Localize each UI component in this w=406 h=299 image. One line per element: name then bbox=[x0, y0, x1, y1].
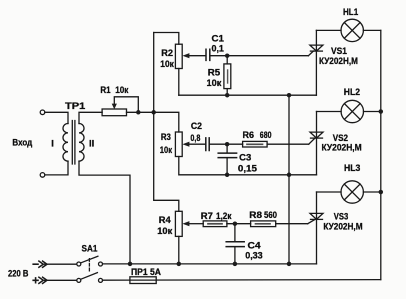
svg-text:220 В: 220 В bbox=[8, 268, 29, 279]
potentiometer R2 body bbox=[175, 44, 182, 68]
wire bbox=[45, 161, 68, 175]
switch SA1 contact bbox=[99, 262, 103, 266]
wire: secondary bottom down to common line bbox=[79, 161, 130, 264]
svg-text:560: 560 bbox=[264, 209, 277, 220]
thyristor VS3 cathode bar bbox=[311, 218, 323, 220]
node: input terminal bottom bbox=[40, 173, 45, 178]
node junction R4/common bbox=[177, 262, 182, 267]
wire: R2 top bbox=[154, 33, 179, 45]
wire: R2 bottom down bbox=[178, 69, 180, 96]
svg-text:Вход: Вход bbox=[12, 137, 32, 148]
resistor R6 body bbox=[243, 141, 268, 147]
thyristor VS1 vertical lead bbox=[315, 30, 317, 95]
wire: C3 bottom stem bbox=[226, 158, 228, 175]
transformer T1 secondary winding II bbox=[79, 124, 84, 162]
svg-text:HL1: HL1 bbox=[343, 6, 358, 17]
wire: VS3 anode to lamp HL3 bbox=[317, 191, 342, 193]
node junction R5 bottom bbox=[225, 93, 230, 98]
transformer T1 primary winding I bbox=[63, 124, 68, 162]
svg-text:ТР1: ТР1 bbox=[65, 100, 85, 111]
svg-text:R1: R1 bbox=[100, 84, 110, 95]
wire bbox=[45, 112, 68, 123]
wire: bus to R3 top bbox=[154, 112, 179, 132]
wire: bottom supply rail bbox=[103, 279, 381, 282]
node junction C3 bottom bbox=[225, 173, 230, 178]
switch SA1 contact bbox=[99, 278, 103, 282]
node junction bus/common bbox=[287, 262, 292, 267]
svg-text:R6: R6 bbox=[243, 129, 255, 140]
svg-text:10к: 10к bbox=[160, 58, 174, 69]
R4 wiper arrowhead bbox=[182, 221, 189, 226]
fuse FU1 body bbox=[130, 277, 156, 284]
thyristor VS2 gate diagonal bbox=[309, 138, 315, 144]
thyristor VS2 triangle bbox=[310, 132, 323, 138]
resistor R7 value stripe mark bbox=[208, 223, 222, 225]
wire: C1 to VS1 gate bbox=[210, 55, 308, 57]
thyristor VS1 triangle bbox=[310, 45, 323, 51]
R2 wiper arrowhead bbox=[182, 53, 189, 58]
thyristor VS3 gate diagonal bbox=[308, 219, 315, 223]
wire: R5 bottom stem bbox=[226, 89, 228, 96]
svg-text:C3: C3 bbox=[239, 152, 251, 163]
resistor R5 body bbox=[224, 64, 231, 89]
svg-text:R5: R5 bbox=[208, 66, 220, 77]
svg-text:КУ202Н,М: КУ202Н,М bbox=[319, 55, 358, 66]
220V minus polarity mark bbox=[33, 263, 38, 265]
lamp HL2 bbox=[341, 100, 363, 122]
wire: main audio bus vertical bbox=[154, 33, 179, 212]
svg-text:R2: R2 bbox=[161, 47, 173, 58]
lamp HL3 bbox=[341, 181, 363, 203]
R1 wiper arm bbox=[114, 97, 138, 113]
capacitor C4 plates bbox=[226, 242, 244, 247]
wire: HL1 to right bus bbox=[363, 29, 380, 31]
capacitor C3 plates bbox=[218, 153, 236, 158]
transformer T1 core bbox=[72, 121, 75, 165]
node junction C4/common bbox=[233, 262, 238, 267]
svg-text:10к: 10к bbox=[207, 77, 222, 88]
switch SA1 link dashed bbox=[88, 259, 90, 273]
svg-text:I: I bbox=[51, 138, 54, 149]
wire: R4 bottom bbox=[178, 236, 180, 264]
wire: secondary top to R1 bbox=[79, 112, 102, 123]
svg-text:0,15: 0,15 bbox=[238, 162, 257, 173]
svg-text:КУ202Н,М: КУ202Н,М bbox=[323, 220, 362, 231]
svg-text:0,1: 0,1 bbox=[212, 43, 224, 54]
capacitor C1 plates bbox=[206, 49, 210, 60]
wire: R4 wiper to R7 bbox=[189, 223, 203, 225]
svg-text:C2: C2 bbox=[191, 120, 202, 131]
220V plus polarity mark bbox=[33, 278, 38, 283]
svg-text:0,8: 0,8 bbox=[190, 132, 200, 143]
wire: R7 to R8 bbox=[227, 223, 251, 225]
thyristor VS2 vertical lead bbox=[316, 112, 318, 175]
wire: R3 bottom / channel 2 return line bbox=[179, 157, 317, 175]
svg-text:10к: 10к bbox=[115, 84, 128, 95]
lamp HL1 bbox=[341, 19, 363, 41]
resistor R6 value stripe mark bbox=[247, 143, 263, 145]
wire: R8 to VS3 gate bbox=[276, 223, 308, 225]
svg-text:HL3: HL3 bbox=[344, 162, 360, 173]
fuse FU1 inner line bbox=[130, 279, 156, 281]
svg-text:R8: R8 bbox=[249, 209, 262, 220]
wire: HL2 to right bus bbox=[364, 111, 381, 113]
wire: C2 to R6 bbox=[210, 143, 243, 145]
svg-text:1,2к: 1,2к bbox=[216, 210, 232, 221]
switch SA1 blade top bbox=[81, 256, 98, 263]
wire: C4 top stem bbox=[234, 224, 236, 242]
wire: VS2 anode to lamp HL2 bbox=[317, 111, 342, 113]
thyristor VS2 cathode bar bbox=[311, 137, 323, 139]
svg-text:SA1: SA1 bbox=[82, 243, 98, 254]
wire: 220V minus lead bbox=[45, 263, 77, 265]
resistor R1 body bbox=[102, 109, 126, 116]
svg-text:R3: R3 bbox=[161, 131, 171, 142]
wire: R5 top stem bbox=[226, 56, 228, 64]
svg-text:HL2: HL2 bbox=[344, 86, 360, 97]
node junction C1/R5 bbox=[225, 53, 230, 58]
svg-text:0,33: 0,33 bbox=[245, 250, 263, 261]
svg-text:R7: R7 bbox=[201, 210, 213, 221]
wire: channel 1 return line bbox=[179, 94, 317, 96]
node junction R7/R8/C4 bbox=[233, 221, 238, 226]
wire: C4 bottom stem bbox=[234, 247, 236, 264]
potentiometer R3 body bbox=[175, 132, 182, 157]
switch SA1 blade bottom bbox=[81, 273, 98, 280]
resistor R5 interior mark bbox=[227, 70, 229, 83]
svg-text:10к: 10к bbox=[160, 144, 172, 155]
switch SA1 contact bbox=[77, 278, 81, 282]
thyristor VS1 cathode bar bbox=[310, 50, 322, 52]
thyristor VS3 triangle bbox=[310, 213, 323, 219]
R3 wiper arrowhead bbox=[182, 142, 189, 147]
node junction HL3 bus bbox=[379, 190, 384, 195]
node junction return bus top bbox=[287, 93, 292, 98]
R1 wiper arrowhead bbox=[112, 104, 117, 110]
svg-text:R4: R4 bbox=[159, 214, 172, 225]
capacitor C2 plates bbox=[206, 138, 209, 151]
thyristor VS1 gate bbox=[308, 51, 313, 56]
node junction C2/R6/C3 bbox=[225, 142, 230, 147]
node junction R1 wiper bbox=[136, 110, 141, 115]
resistor R7 body bbox=[203, 221, 227, 227]
node junction audio bus bbox=[151, 110, 156, 115]
resistor R8 body bbox=[251, 221, 276, 227]
wire: common line bottom bbox=[103, 263, 317, 265]
svg-text:КУ202Н,М: КУ202Н,М bbox=[322, 142, 362, 153]
node junction transformer/common bbox=[128, 262, 133, 267]
node junction HL2 bus bbox=[379, 109, 384, 114]
wire: 220V plus lead bbox=[45, 279, 77, 281]
svg-text:II: II bbox=[89, 138, 94, 149]
node: input terminal top bbox=[40, 110, 45, 115]
wire: right supply bus bbox=[380, 30, 382, 279]
switch SA1 contact bbox=[77, 262, 81, 266]
thyristor VS3 vertical lead bbox=[316, 192, 318, 264]
node junction ch2 return bus bbox=[287, 173, 292, 178]
wire: R2 wiper to C1 bbox=[189, 55, 205, 57]
svg-text:ПР1 5А: ПР1 5А bbox=[131, 266, 161, 277]
wire: R1 right to bus bbox=[127, 111, 154, 113]
wire: common return bus vertical bbox=[288, 95, 290, 264]
wire: VS1 anode to lamp HL1 bbox=[316, 29, 341, 31]
potentiometer R4 body bbox=[175, 211, 182, 236]
wire: HL3 to right bus bbox=[363, 191, 380, 193]
svg-text:680: 680 bbox=[260, 129, 272, 140]
wire: R3 wiper to C2 bbox=[189, 143, 205, 145]
svg-text:10к: 10к bbox=[157, 225, 172, 236]
wire: C3 top stem bbox=[226, 144, 228, 153]
resistor R8 value stripe mark bbox=[256, 223, 271, 225]
wire: R6 to VS2 gate bbox=[267, 143, 309, 145]
